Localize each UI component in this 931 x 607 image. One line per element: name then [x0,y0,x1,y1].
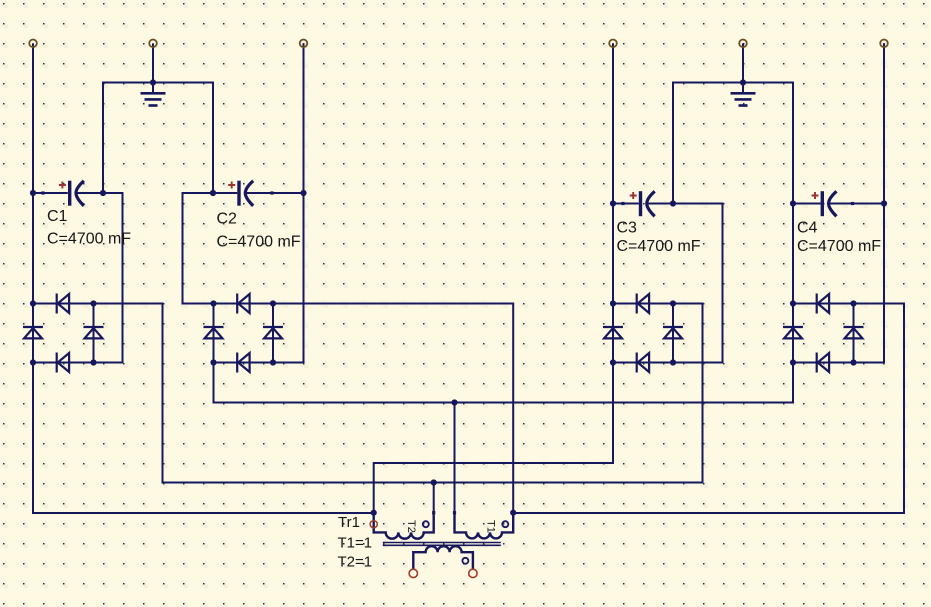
node C4 right junction [881,200,887,206]
node y=482.5 / T2 right pin [431,479,437,485]
node bridge3 top-left [610,300,616,306]
diode bridge2 right diode [263,327,283,338]
wire: bridge4 right edge [853,304,855,363]
wire: C3 row right segment to x=722.5 down to bridge3 bottom-right [648,204,723,363]
node bridge4 top-left [790,300,796,306]
node C2 left junction [210,190,216,196]
capacitor C3 [630,191,655,216]
node bridge2 top-left [210,300,216,306]
node bridge1 top-right [90,300,96,306]
wire: bridge1 top edge [33,303,94,305]
node bridge2 bottom-left [210,359,216,365]
terminal 1 [29,40,37,48]
node C4 left junction [790,200,796,206]
node bridge4 top-right [850,300,856,306]
wire: bridge3 bottom edge [613,362,673,364]
terminal 4 [609,40,617,48]
wire: C4 row y=203.5 left segment [793,203,821,205]
wire: bridge4 left edge [792,304,794,363]
ground 1 [141,83,166,106]
pin end Tr1 T2 right [432,511,435,514]
wire: T2 right pin riser from y=482.5 junction [433,483,435,513]
wire: bridge1 top-right to x=163.5 down along y=482.5 up at x=702.5 to bridge3 top-right [94,304,703,483]
Tr1 secondary left terminal ring [409,569,417,577]
node C3 right junction [670,200,676,206]
wire: bridge1 right edge [93,304,95,363]
Tr1 secondary right terminal ring [469,569,477,577]
wire: ground loop 1 (C1+ to ground to C2+) [103,83,213,194]
node C2 right junction [300,190,306,196]
ground 2 [731,83,756,106]
wire: bridge3 right edge [672,304,674,363]
svg-text:T2=1: T2=1 [338,554,373,571]
wire: ground loop 2 (C3 to ground to C4) [673,83,793,204]
svg-text:C=4700 mF: C=4700 mF [797,238,881,255]
wire: C4 row y=203.5 right segment [829,203,884,205]
node bridge1 bottom-right [90,359,96,365]
wire: terminal6 riser x=884 down to bridge4 bottom-right [854,43,885,362]
node bus y=402.5 / T1 left pin [451,399,457,405]
pin end C2 right [270,191,273,194]
wire: C2 left branch down x=182.5 to bridge2 top-left [183,193,214,304]
diode bridge1 left diode [23,327,43,338]
transformer Tr1 [370,513,513,578]
wire: terminal2 stem to ground tap [152,43,154,82]
wire: bridge2 top-right to x=513.2 down to bottom bus dot [273,304,513,513]
node bridge1 top-left [30,300,36,306]
wire: bridge4 top-right to x=904 down to bottom bus y=513 left to T1 right pin [513,304,904,514]
svg-text:C4: C4 [797,219,818,236]
svg-text:C=4700 mF: C=4700 mF [217,234,301,251]
diode bridge1 top diode [57,294,69,314]
svg-text:T1=1: T1=1 [338,535,373,552]
wire: C2 row y=193 right segment [246,192,304,194]
svg-text:C=4700 mF: C=4700 mF [617,238,701,255]
svg-text:T1: T1 [485,520,497,533]
pin end C1 left [41,191,44,194]
node ground2 tap [740,79,746,85]
wire: C4 left branch down to bridge4 top-left [792,204,794,304]
terminal 3 [300,40,308,48]
diode bridge4 top diode [817,294,829,314]
terminal 2 [149,40,157,48]
pin end Tr1 T1 left [453,511,456,514]
node bridge2 top-right [270,300,276,306]
terminal 5 [739,40,747,48]
node bridge3 bottom-left [610,359,616,365]
wire: bridge2 top edge [214,303,274,305]
Tr1 primary winding T2 (left) [374,513,434,539]
node ground1 tap [150,79,156,85]
Tr1 core (double line) [383,543,501,546]
diode bridge3 right diode [663,327,683,338]
wire: C1 row y=193 right segment to x=122.5 down to bridge1 bottom-right [77,193,123,363]
svg-text:C3: C3 [617,219,638,236]
node bridge4 bottom-left [790,359,796,365]
wire: terminal5 stem to ground tap 2 [742,43,744,82]
node C1 left junction [30,190,36,196]
Tr1 left pin hotspot ring [370,521,377,528]
wire: C3 row y=203.5 left segment [613,203,639,205]
Tr1 secondary winding [413,546,473,569]
capacitor C1 [59,181,84,206]
wire: terminal4 riser x=613 down, link y=463 left, down x=373.5 to T2 left pin [374,43,613,512]
wire: C1 row y=193 left segment [33,192,68,194]
node Tr1 left pin on bottom bus [371,510,377,516]
node bridge4 bottom-right [850,359,856,365]
capacitor C4 [812,191,837,216]
diode bridge2 left diode [204,327,224,338]
Tr1 secondary phase-dot circle [462,558,468,564]
wire: bridge2 left edge down to bus y=402.5 across to bridge4 bottom-left [214,304,794,403]
diode bridge2 bottom diode [237,353,249,373]
diode bridge1 bottom diode [57,353,69,373]
diode bridge2 top diode [237,294,249,314]
diode bridge4 right diode [844,327,864,338]
node bridge1 bottom-left [30,359,36,365]
wire: bridge1 bottom edge [33,362,94,364]
pin end C3 left [621,202,624,205]
svg-text:Tr1: Tr1 [338,514,360,531]
wire: bridge4 top edge [793,303,854,305]
node bridge3 bottom-right [670,359,676,365]
wire: bridge2 right edge [272,304,274,363]
Tr1 T1 phase-dot circle [502,521,508,527]
svg-text:T2: T2 [405,520,417,533]
diode bridge3 bottom diode [637,353,649,373]
Tr1 T2 phase-dot circle [423,521,429,527]
svg-text:C2: C2 [217,211,238,228]
wire: terminal3 riser x=303.5 down to bridge2 bottom-right [273,43,304,362]
wire: bridge3 top edge [613,303,673,305]
wire: bridge2 bottom edge [214,362,274,364]
wire: T1 left pin riser from bus y=402.5 [454,403,456,513]
node Tr1 right pin on bottom bus [510,510,516,516]
pin end C4 right [851,202,854,205]
diode bridge4 left diode [783,327,803,338]
Tr1 primary winding T1 (right) [455,513,514,539]
capacitor C2 [228,181,253,206]
diode bridge1 right diode [84,327,104,338]
diode bridge3 left diode [603,327,623,338]
node bridge2 bottom-right [270,359,276,365]
node bridge3 top-right [670,300,676,306]
wire: C2 row y=193 left segment [213,192,237,194]
wire: left bus x=33 from terminal1 down to bottom bus y=513 to transformer T2 left pin [33,43,374,513]
terminal 6 [880,40,888,48]
diode bridge3 top diode [637,294,649,314]
svg-text:C1: C1 [47,208,68,225]
node C3 left junction [610,200,616,206]
node C1 right junction [100,190,106,196]
diode bridge4 bottom diode [817,353,829,373]
svg-text:C=4700 mF: C=4700 mF [47,231,131,248]
wire: bridge4 bottom edge [793,362,854,364]
